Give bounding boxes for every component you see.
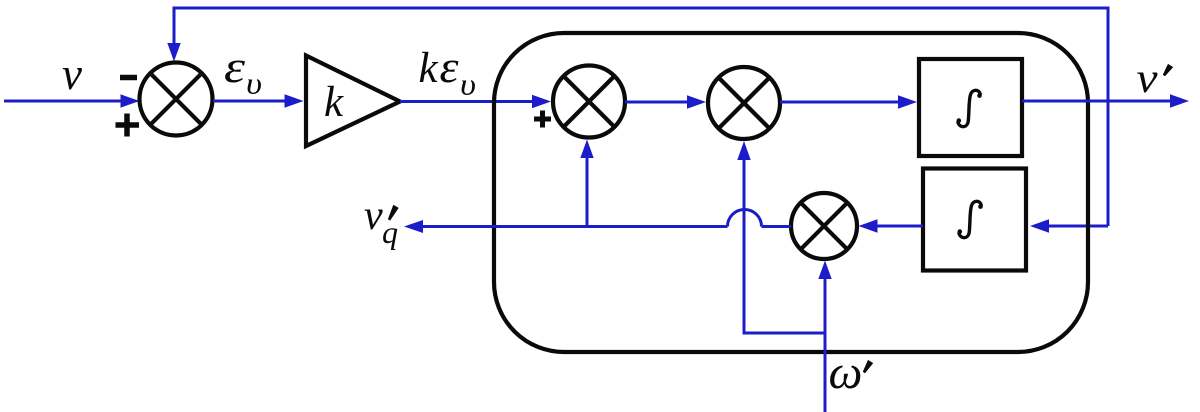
wire M2 to integrator box1 — [780, 101, 900, 104]
wire top feedback from v' node to summer S1 — [174, 8, 1108, 226]
minus sign at S1 — [120, 75, 137, 81]
wire v' output — [1022, 100, 1171, 103]
wire box2 to multiplier M3 — [875, 225, 923, 228]
wire input v — [4, 100, 123, 103]
wire omega' branch to M2 — [744, 157, 825, 333]
svg-text:q: q — [382, 214, 398, 250]
integrator box1 — [919, 59, 1022, 156]
summer S1 — [140, 63, 213, 136]
amplifier k triangle — [306, 56, 400, 147]
multiplier M2 — [708, 67, 780, 139]
wire amplifier to multiplier M1 — [400, 100, 534, 103]
svg-text:ε: ε — [440, 41, 460, 92]
integrator box2 — [923, 169, 1026, 271]
wire S1 to amplifier k — [213, 100, 287, 103]
wire arrow into summer S1 top — [167, 43, 180, 62]
oscillator block rounded rectangle — [494, 33, 1088, 352]
svg-text:k: k — [324, 79, 344, 126]
wire omega' input riser to M3 — [824, 276, 827, 412]
multiplier M1 — [553, 66, 625, 138]
svg-text:ω: ω — [829, 346, 863, 399]
plus sign at M1 — [534, 117, 551, 122]
svg-text:v: v — [1137, 56, 1158, 102]
svg-text:ε: ε — [224, 41, 246, 92]
svg-text:υ: υ — [246, 66, 262, 101]
wire M1 to M2 — [625, 101, 689, 104]
wire vq' output with hop over omega line — [762, 225, 792, 228]
multiplier M3 — [791, 193, 857, 259]
plus sign at S1 — [116, 122, 140, 128]
svg-text:v: v — [364, 193, 383, 239]
wire arrow into integrator box2 right — [1030, 219, 1049, 232]
wire riser from vq' line to M1 — [586, 155, 589, 227]
svg-text:v: v — [62, 49, 82, 99]
svg-text:k: k — [419, 45, 439, 92]
svg-text:υ: υ — [460, 67, 476, 102]
